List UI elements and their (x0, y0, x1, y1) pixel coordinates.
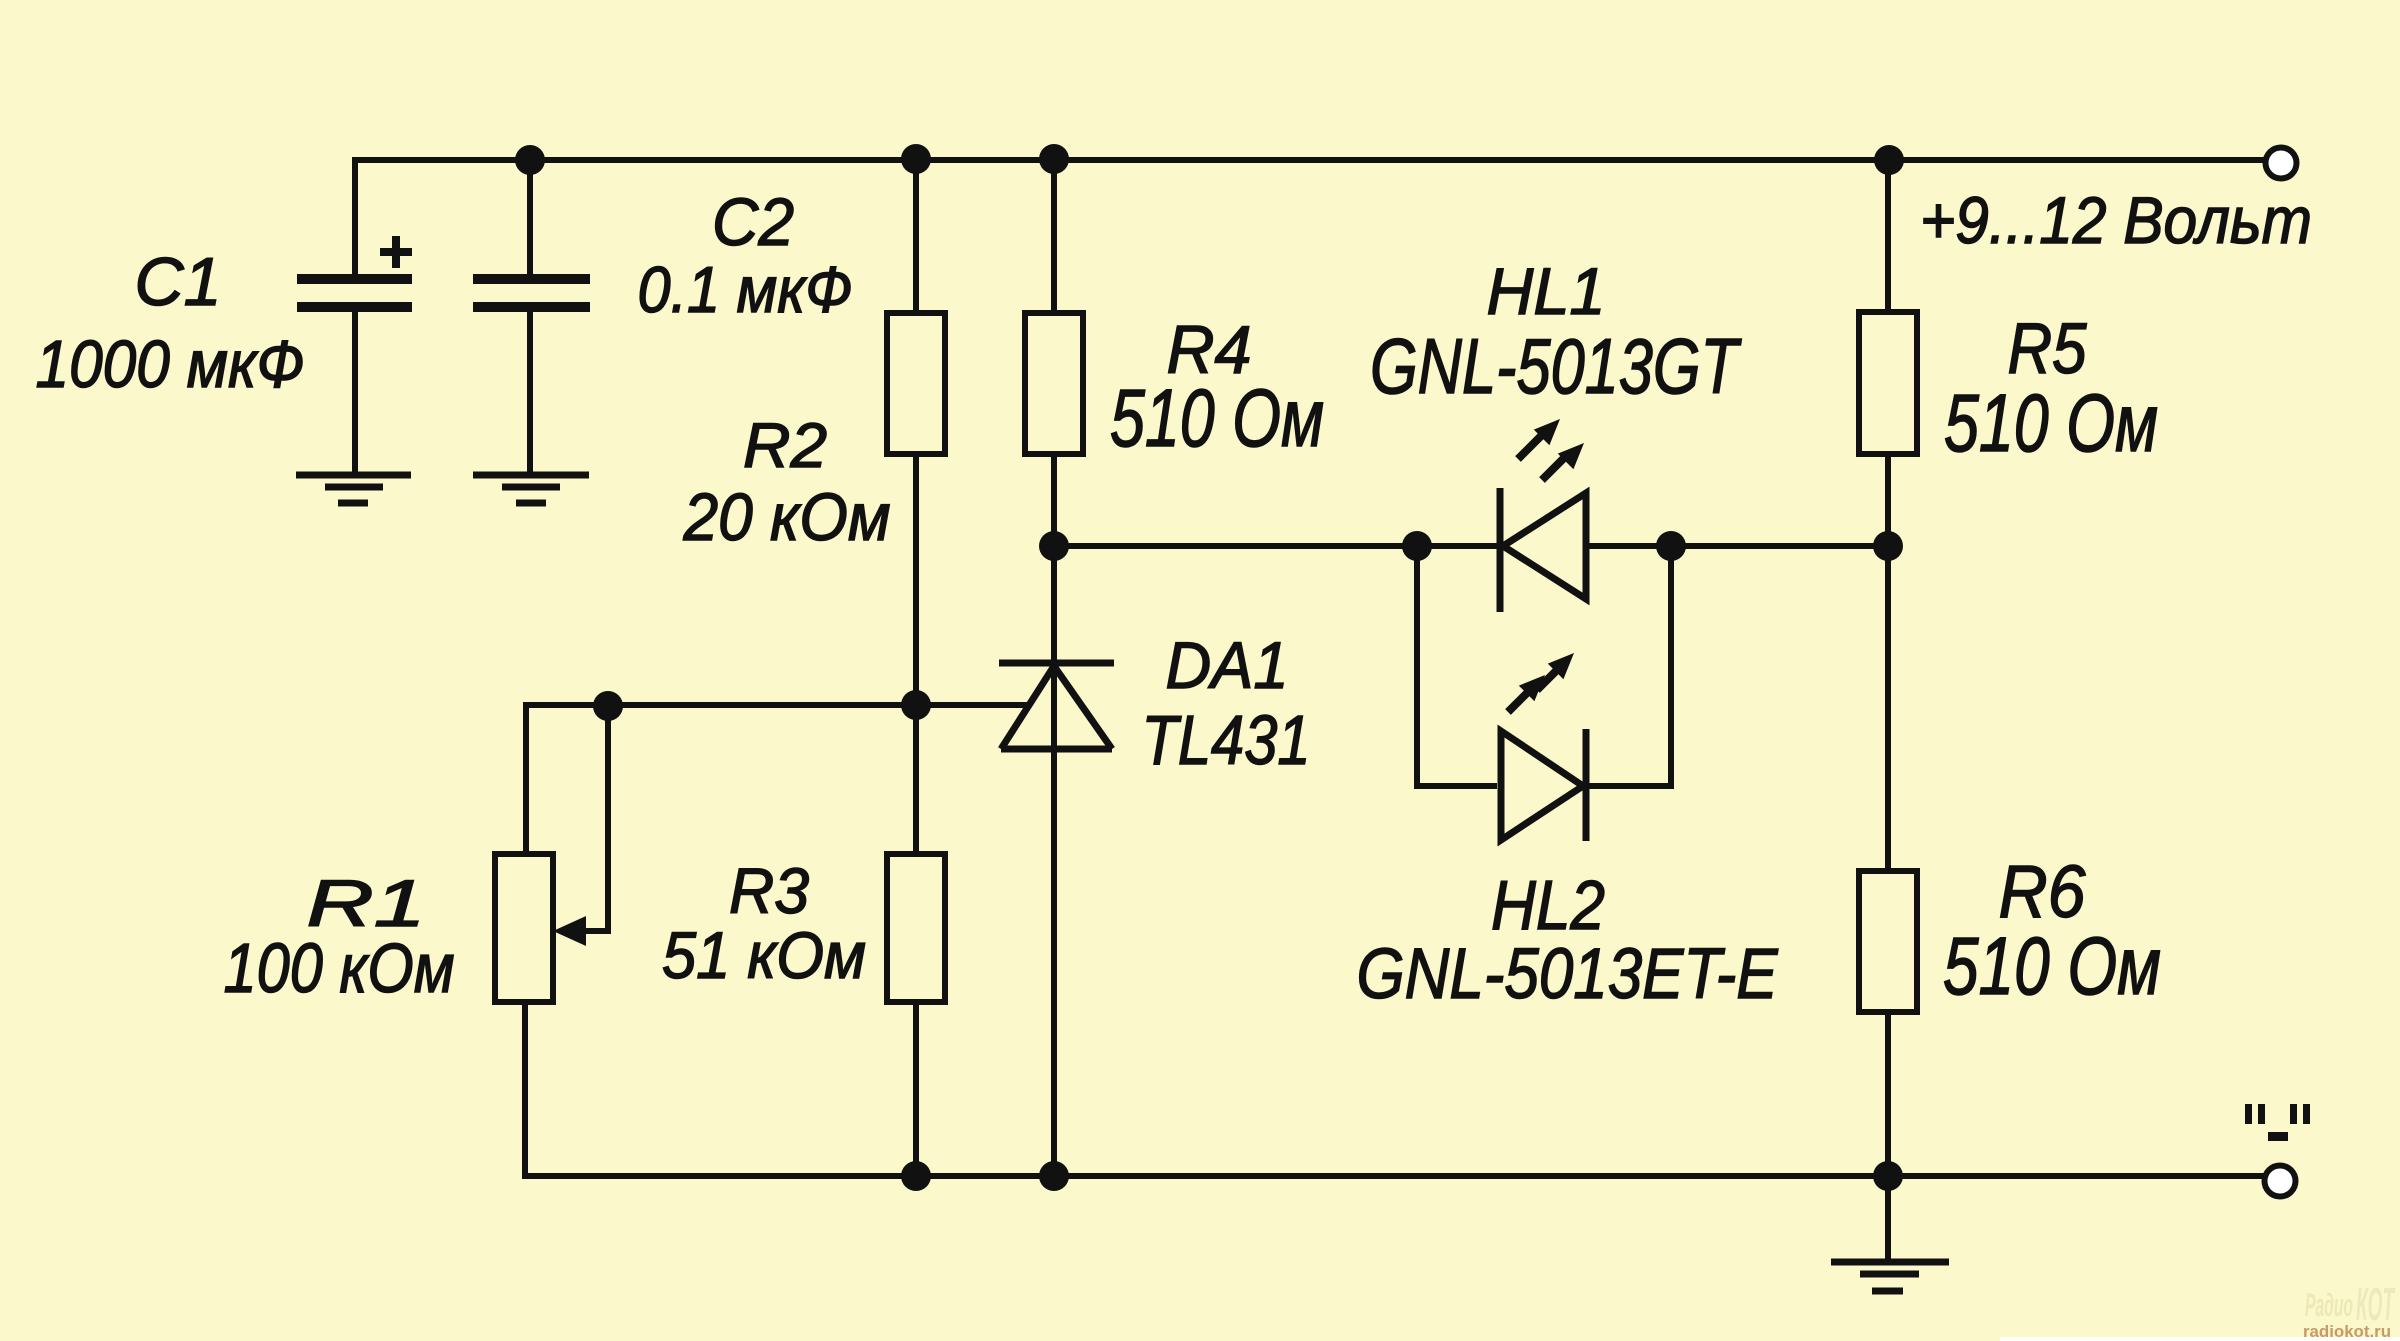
node C2 top (515, 145, 545, 175)
wire HL2 branch left (1417, 546, 1497, 786)
node R2 ref (901, 690, 931, 720)
terminal minus (2265, 1166, 2296, 1197)
svg-text:HL1: HL1 (1487, 254, 1606, 328)
wire bottom rail (525, 1173, 2264, 1179)
svg-text:0.1 мкФ: 0.1 мкФ (638, 253, 853, 326)
ground C2 (473, 475, 589, 503)
wire R1 bottom lead (525, 1002, 916, 1176)
svg-text:GNL-5013ET-E: GNL-5013ET-E (1357, 935, 1779, 1014)
svg-text:DA1: DA1 (1166, 628, 1289, 702)
wire R2 to R3 (913, 454, 919, 854)
wire R6 bottom lead (1885, 1012, 1891, 1176)
svg-text:51 кОм: 51 кОм (662, 918, 866, 992)
label minus terminal (2245, 1104, 2310, 1141)
polarity plus C1 (380, 236, 412, 268)
svg-text:510 Ом: 510 Ом (1944, 378, 2158, 469)
wire reference R1-R2-DA1 (526, 705, 1030, 854)
svg-text:GNL-5013GT: GNL-5013GT (1370, 322, 1742, 410)
node HL2 right (1656, 531, 1686, 561)
resistor R3 (887, 854, 945, 1002)
wire R5 bottom lead (1885, 454, 1891, 546)
node R5 bottom (1873, 531, 1903, 561)
svg-text:510 Ом: 510 Ом (1110, 373, 1324, 464)
LED HL1 (1500, 488, 1586, 612)
svg-text:100 кОм: 100 кОм (224, 929, 455, 1007)
wire DA1 anode lead (1051, 749, 1057, 1176)
wire C2 bottom lead (527, 312, 533, 472)
wire R4 top lead (1051, 160, 1057, 313)
svg-text:HL2: HL2 (1491, 866, 1605, 944)
resistor R5 (1859, 312, 1917, 454)
node R2 top (901, 144, 931, 174)
wire HL2 branch right (1589, 546, 1671, 786)
node HL2 left (1402, 531, 1432, 561)
node R5 top (1874, 145, 1904, 175)
wiper R1 (584, 708, 608, 931)
capacitor C2 (473, 279, 590, 307)
wire top rail (355, 157, 2265, 163)
svg-text:TL431: TL431 (1142, 701, 1311, 779)
node R3 bottom (901, 1161, 931, 1191)
wire R6 top lead (1885, 546, 1891, 871)
svg-text:+9...12 Вольт: +9...12 Вольт (1920, 183, 2312, 257)
node DA1 bottom (1039, 1161, 1069, 1191)
diode DA1 TL431 (999, 663, 1114, 749)
wire R5 top lead (1885, 160, 1891, 312)
arrows HL2 (1508, 668, 1559, 712)
wire C1 bottom lead (352, 312, 358, 472)
capacitor C1 (297, 279, 412, 307)
svg-text:Радио: Радио (2305, 1287, 2353, 1323)
wire mid rail (1054, 543, 1497, 549)
svg-text:R2: R2 (743, 411, 827, 481)
wire to ground (1885, 1176, 1891, 1262)
arrows HL1 (1518, 435, 1566, 480)
bottom edge strip (2000, 1337, 2400, 1341)
potentiometer R1 (495, 854, 553, 1002)
svg-text:C2: C2 (712, 185, 794, 260)
svg-text:C1: C1 (135, 244, 222, 320)
resistor R2 (887, 313, 945, 454)
terminal +9...12 (2266, 148, 2297, 179)
wire C2 top lead (527, 160, 533, 275)
ground main (1831, 1262, 1949, 1291)
svg-text:20 кОм: 20 кОм (683, 480, 891, 555)
node R4 top (1039, 144, 1069, 174)
node wiper (593, 691, 623, 721)
wire R3 bottom lead (913, 1002, 919, 1176)
node R6 bottom (1873, 1161, 1903, 1191)
LED HL2 (1501, 729, 1586, 841)
wire R4 to DA1 (1051, 454, 1057, 749)
wire C1 top lead (352, 157, 358, 275)
node R4 mid (1039, 531, 1069, 561)
svg-text:1000 мкФ: 1000 мкФ (36, 327, 305, 402)
ground C1 (296, 475, 411, 503)
svg-text:R3: R3 (729, 855, 809, 927)
resistor R4 (1025, 313, 1083, 454)
resistor R6 (1859, 871, 1917, 1012)
wire R2 top lead (913, 160, 919, 313)
svg-text:510 Ом: 510 Ом (1943, 921, 2161, 1012)
